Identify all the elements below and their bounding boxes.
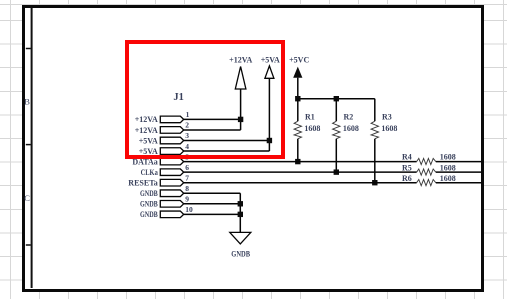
junction bus/R2 <box>334 96 339 101</box>
svg-text:GNDB: GNDB <box>140 189 158 198</box>
svg-text:1608: 1608 <box>381 124 397 133</box>
junction pin9/ground stem <box>238 201 243 206</box>
resistor R2 <box>333 99 359 172</box>
junction R3/pin7 wire <box>372 180 377 185</box>
J1 pin 1 flag <box>160 116 183 123</box>
svg-text:1608: 1608 <box>440 153 456 162</box>
junction R1/pin5 wire <box>295 159 300 164</box>
wire pin 5 DATAa left of R4 <box>184 161 417 163</box>
resistor R6 <box>402 174 456 186</box>
J1 pin 6 flag <box>160 169 183 176</box>
wire pin 1 to +12VA stem <box>184 118 241 120</box>
J1 pin 8 flag <box>160 190 183 197</box>
svg-text:+5VC: +5VC <box>289 55 309 64</box>
J1 pin 7 flag <box>160 179 183 186</box>
svg-text:9: 9 <box>185 195 189 204</box>
svg-text:7: 7 <box>185 173 189 182</box>
wire ground stem vertical <box>239 193 241 232</box>
svg-text:R1: R1 <box>305 113 315 122</box>
wire +5VA stem down to pin 4 <box>268 78 270 151</box>
wire pin 7 right of R6 to border <box>436 182 482 184</box>
wire pin 2 to +12VA stem corner <box>184 129 241 131</box>
junction R2/pin6 wire <box>334 169 339 174</box>
wire pin 10 to ground stem <box>184 213 241 215</box>
resistor R3 <box>371 99 397 183</box>
wire pin 9 to ground stem <box>184 203 241 205</box>
J1 pin 4 flag <box>160 148 183 155</box>
wire +5VC stem down to bus <box>297 78 299 99</box>
wire bus across R1 R2 R3 tops <box>298 98 375 100</box>
resistor R5 <box>402 163 456 175</box>
svg-text:10: 10 <box>185 205 193 214</box>
svg-text:B: B <box>24 97 30 107</box>
wire +12VA stem down to pin 2 <box>240 89 242 130</box>
svg-text:R4: R4 <box>402 153 412 162</box>
J1 pin 10 flag <box>160 211 183 218</box>
wire pin 7 RESETa left of R6 <box>184 182 417 184</box>
junction pin10/ground stem <box>238 212 243 217</box>
svg-text:CLKa: CLKa <box>141 168 158 177</box>
resistor R1 <box>294 99 320 162</box>
svg-text:6: 6 <box>185 163 189 172</box>
resistor R4 <box>402 153 456 165</box>
svg-text:GNDB: GNDB <box>231 249 250 258</box>
svg-text:R6: R6 <box>402 174 412 183</box>
svg-text:R3: R3 <box>382 113 392 122</box>
wire pin 4 to +5VA stem corner <box>184 150 270 152</box>
junction pin3/+5VA <box>267 138 272 143</box>
junction pin1/+12VA <box>238 117 243 122</box>
ground symbol GNDB <box>230 232 251 258</box>
wire pin 5 right of R4 to border <box>436 161 482 163</box>
svg-text:RESETa: RESETa <box>128 179 158 188</box>
power symbol +5VC <box>289 55 309 77</box>
svg-text:1608: 1608 <box>304 124 320 133</box>
svg-text:GNDB: GNDB <box>140 200 158 209</box>
wire pin 6 right of R5 to border <box>436 171 482 173</box>
svg-text:1608: 1608 <box>440 163 456 172</box>
wire pin 6 CLKa left of R5 <box>184 171 417 173</box>
power symbol +5VA <box>261 55 280 78</box>
svg-text:DATAa: DATAa <box>132 157 157 166</box>
J1 pin 5 flag <box>160 158 183 165</box>
J1 pin 9 flag <box>160 201 183 208</box>
power symbol +12VA <box>229 55 252 89</box>
J1 pin 2 flag <box>160 127 183 134</box>
svg-text:R2: R2 <box>344 113 354 122</box>
svg-text:GNDB: GNDB <box>140 210 158 219</box>
svg-text:R5: R5 <box>402 163 412 172</box>
wire pin 3 to +5VA stem <box>184 140 270 142</box>
svg-text:C: C <box>24 193 30 203</box>
connector J1 <box>160 92 193 218</box>
svg-text:1608: 1608 <box>440 174 456 183</box>
J1 pin 3 flag <box>160 137 183 144</box>
wire pin 8 to ground stem corner <box>184 192 241 194</box>
red highlight rectangle annotation <box>125 40 285 159</box>
svg-text:8: 8 <box>185 184 189 193</box>
junction bus/R1 <box>295 96 300 101</box>
svg-text:1608: 1608 <box>343 124 359 133</box>
